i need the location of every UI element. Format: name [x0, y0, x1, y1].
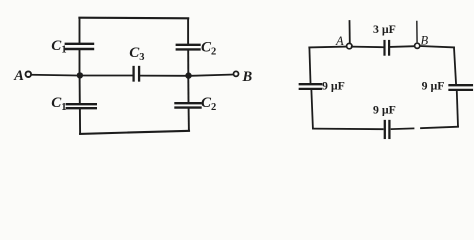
svg-text:B: B — [242, 69, 253, 85]
wire junction to C1 bottom — [79, 78, 81, 103]
svg-text:C1: C1 — [51, 38, 66, 56]
wire bottom rail right segment — [421, 127, 458, 129]
capacitor 9 uF (left) plates — [300, 84, 321, 89]
wire C1 bottom to bottom rail — [79, 109, 81, 133]
node A (right circuit) terminal circle — [347, 43, 352, 48]
wire right junction to B — [191, 75, 233, 76]
wire C3 right to right junction — [140, 75, 185, 77]
capacitor C2 (lower) plates — [176, 103, 201, 107]
svg-text:A: A — [335, 34, 344, 48]
capacitor 9 uF (bottom) plates — [385, 121, 390, 138]
node junction left (dot) — [77, 72, 83, 78]
svg-text:A: A — [13, 68, 24, 84]
wire A to left junction — [32, 74, 77, 77]
capacitor 9 uF (right) plates — [450, 85, 472, 90]
svg-text:9 µF: 9 µF — [322, 79, 345, 93]
wire junction to C3 left — [82, 75, 132, 77]
wire node A lead up — [349, 21, 351, 43]
wire right circuit top rail right segment — [420, 46, 454, 47]
node B (left circuit) terminal circle — [234, 71, 239, 76]
svg-text:9 µF: 9 µF — [373, 103, 396, 117]
capacitor C1 (lower) plates — [67, 104, 96, 108]
bottom rail wire (left circuit) — [80, 131, 189, 134]
svg-text:C1: C1 — [51, 95, 66, 113]
wire right circuit left rail upper — [309, 48, 310, 83]
svg-text:C2: C2 — [201, 40, 216, 58]
wire 3uF capacitor to B — [390, 45, 414, 48]
wire right junction to C2 bottom — [187, 79, 189, 103]
wire C2 top to right junction — [187, 51, 189, 74]
wire top rail to C2 top — [187, 19, 189, 44]
capacitor C3 plates — [134, 67, 140, 81]
capacitor C2 (upper) plates — [177, 45, 200, 50]
top rail wire (left circuit) — [79, 17, 188, 20]
node junction right (dot) — [185, 72, 191, 78]
wire C1 top to junction — [79, 50, 81, 73]
svg-text:9 µF: 9 µF — [422, 79, 445, 93]
wire bottom rail left segment — [313, 128, 383, 131]
svg-text:3 µF: 3 µF — [373, 22, 396, 36]
wire right circuit right rail lower — [457, 92, 458, 127]
capacitor 3 uF plates — [385, 41, 390, 55]
capacitor C1 (upper) plates — [66, 44, 93, 49]
wire A to 3uF capacitor — [352, 46, 383, 49]
svg-text:B: B — [421, 34, 429, 48]
wire node B lead up — [416, 22, 418, 43]
wire bottom rail middle segment — [392, 127, 414, 130]
wire C2 bottom to bottom rail — [188, 109, 190, 131]
node A (left circuit) terminal circle — [26, 71, 32, 77]
node B (right circuit) terminal circle — [415, 43, 420, 48]
wire top rail to C1 top — [79, 19, 81, 43]
svg-text:C3: C3 — [129, 45, 144, 63]
wire right circuit top rail left segment — [309, 46, 346, 49]
svg-text:C2: C2 — [201, 95, 216, 113]
wire right circuit right rail upper — [454, 48, 456, 84]
wire right circuit left rail lower — [311, 90, 313, 128]
